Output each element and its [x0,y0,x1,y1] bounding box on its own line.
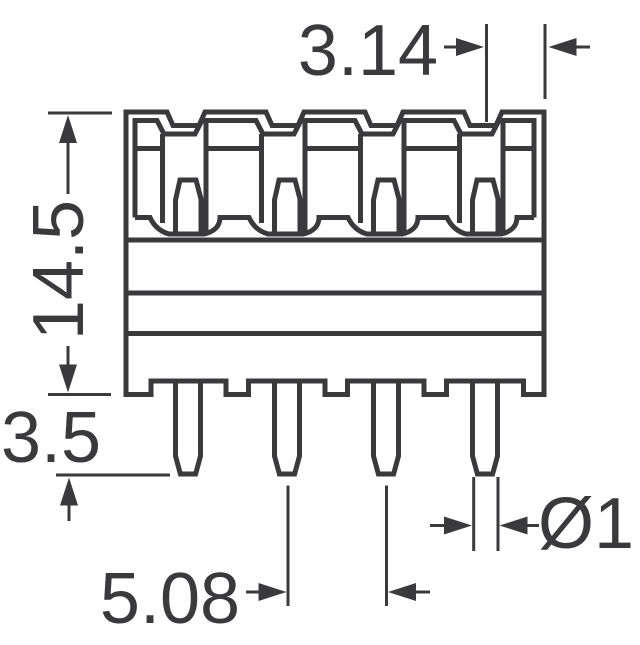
body separation line C [129,331,542,336]
connector body outer contour with 4 top dips and stepped bottom [126,112,544,395]
dimension dia 1 extension line left [472,477,475,551]
svg-text:14.5: 14.5 [19,200,99,340]
body separation line B [129,291,542,296]
dimension 5.08 leader shaft right [412,591,430,594]
dimension 3.14 leader shaft right [575,46,590,49]
contact pin tip position 1 [176,180,202,234]
dimension 5.08 extension line at pin 2 [287,486,290,607]
solder pin 4 [473,381,498,474]
svg-text:3.14: 3.14 [298,11,438,91]
dimension 3.5 extension line at pin bottom level [56,474,170,477]
horizontal partition line between position 2 and 3 [305,146,361,151]
contact channel walls position 4 [457,134,462,223]
solder pin 1 [176,381,201,474]
dimension 3.14 leader shaft left [444,46,460,49]
dimension 14.5 arrowhead pointing up [59,115,77,143]
dimension 3.14 extension line at x 545 [544,24,547,99]
horizontal partition line between position 3 and 4 [404,146,460,151]
dimension dia 1 arrowhead pointing left [500,517,528,535]
contact channel walls position 2 [259,134,264,223]
horizontal partition line above cavities, left end [135,146,163,151]
dimension 3.5 arrowhead pointing up [60,478,78,506]
dimension dia 1 extension line right [497,477,500,551]
cavity bottom curves and ledges [135,218,534,235]
svg-text:Ø1: Ø1 [538,484,634,564]
dimension dia 1 leader shaft right [524,524,539,527]
dimension 14.5 top extension line [48,112,112,115]
dimension 3.5 shaft [68,502,71,521]
dimension dia 1 leader shaft left [430,524,448,527]
body inner top contour with 4 dips [135,121,534,218]
dimension 5.08 arrowhead pointing left [388,583,416,601]
dimension 14.5 arrowhead pointing down [59,365,77,393]
dimension 14.5 upper shaft [67,140,70,194]
contact channel walls position 1 [160,134,165,223]
dimension 5.08 extension line at pin 3 [385,486,388,607]
contact pin tip position 4 [473,180,499,234]
dimension dia 1 arrowhead pointing right [444,517,472,535]
solder pin 3 [374,381,399,474]
svg-text:5.08: 5.08 [100,559,240,639]
dimension 3.14 extension line at x 486.5 [485,24,488,122]
horizontal partition line, right end [503,146,534,151]
svg-text:3.5: 3.5 [1,398,101,478]
horizontal partition line between position 1 and 2 [206,146,262,151]
dimension 5.08 leader shaft left [246,591,261,594]
body separation line A [129,238,542,243]
contact channel walls position 3 [358,134,363,223]
dimension 3.14 arrowhead pointing left [549,38,577,56]
dimension 14.5 lower shaft [67,346,70,369]
solder pin 2 [275,381,300,474]
dimension 3.14 arrowhead pointing right [456,38,484,56]
contact pin tip position 2 [275,180,301,234]
dimension 5.08 arrowhead pointing right [259,583,287,601]
contact pin tip position 3 [374,180,400,234]
dimension 14.5 bottom extension line [48,393,111,396]
